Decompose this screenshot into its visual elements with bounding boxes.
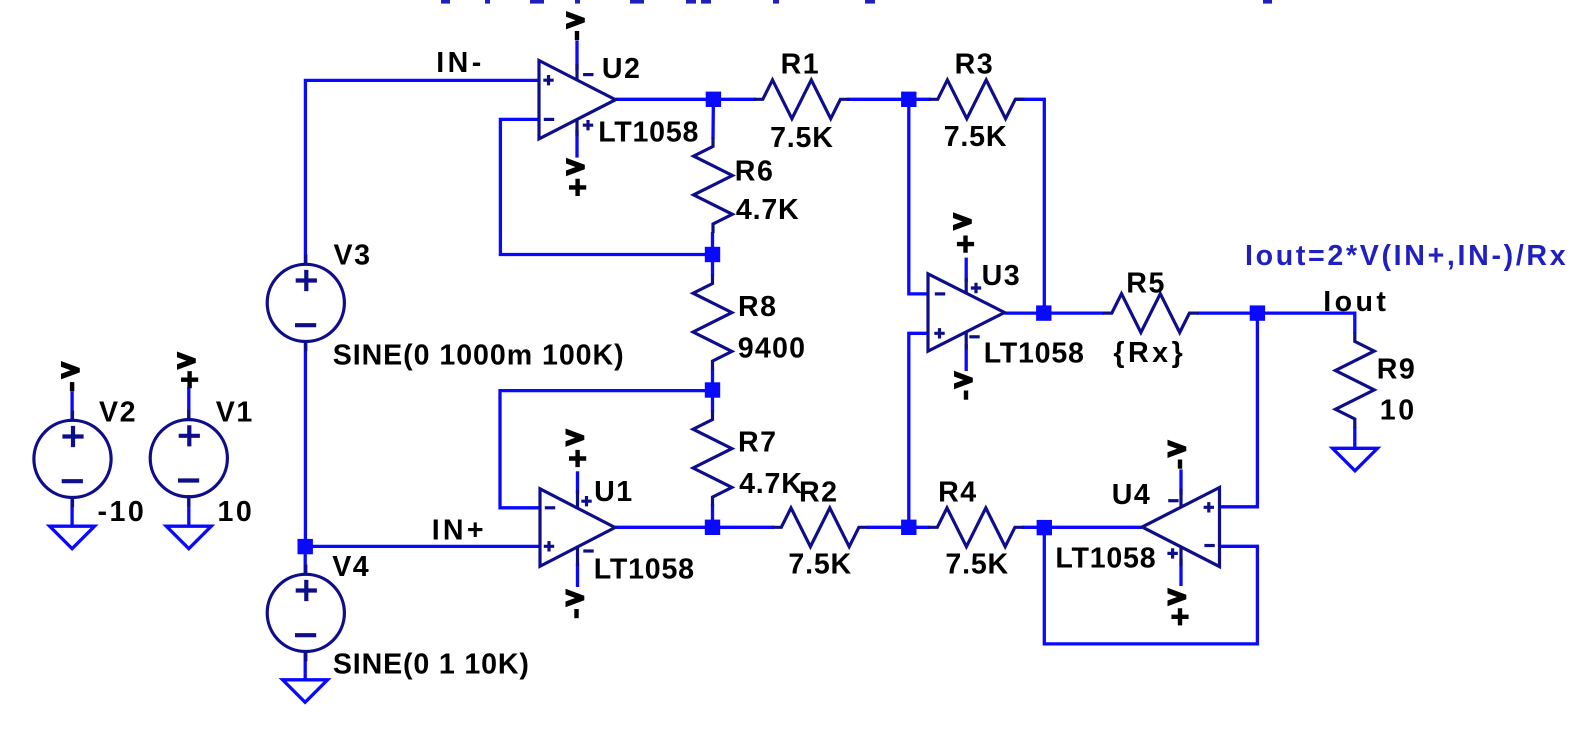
svg-text:R6: R6 (735, 155, 775, 187)
svg-text:Iout: Iout (1323, 286, 1389, 318)
svg-text:7.5K: 7.5K (945, 549, 1009, 581)
svg-text:10: 10 (218, 496, 255, 528)
svg-text:V2: V2 (99, 397, 137, 429)
svg-text:LT1058: LT1058 (598, 117, 699, 149)
svg-text:R2: R2 (799, 476, 839, 508)
svg-text:R4: R4 (938, 476, 978, 508)
svg-text:U1: U1 (594, 476, 634, 508)
svg-text:LT1058: LT1058 (984, 338, 1085, 370)
svg-text:7.5K: 7.5K (770, 122, 834, 154)
svg-text:10: 10 (1380, 395, 1417, 427)
svg-text:R9: R9 (1377, 353, 1417, 385)
svg-text:LT1058: LT1058 (1055, 543, 1156, 575)
svg-text:U2: U2 (602, 53, 642, 85)
svg-text:R8: R8 (738, 291, 778, 323)
svg-text:V4: V4 (332, 551, 370, 583)
svg-text:9400: 9400 (738, 333, 806, 365)
svg-text:U3: U3 (982, 260, 1022, 292)
svg-text:4.7K: 4.7K (736, 194, 800, 226)
svg-text:7.5K: 7.5K (944, 121, 1008, 153)
svg-text:V1: V1 (216, 397, 254, 429)
svg-text:V3: V3 (334, 239, 372, 271)
svg-text:R3: R3 (955, 49, 995, 81)
svg-text:{Rx}: {Rx} (1113, 337, 1186, 369)
svg-text:7.5K: 7.5K (788, 549, 852, 581)
svg-text:Iout=2*V(IN+,IN-)/Rx: Iout=2*V(IN+,IN-)/Rx (1245, 240, 1568, 272)
svg-text:4.7K: 4.7K (739, 468, 803, 500)
svg-text:LT1058: LT1058 (594, 553, 695, 585)
svg-text:-10: -10 (98, 496, 147, 528)
svg-text:IN-: IN- (436, 47, 485, 79)
svg-text:IN+: IN+ (432, 515, 487, 547)
svg-text:U4: U4 (1112, 479, 1152, 511)
svg-text:R5: R5 (1126, 268, 1166, 300)
svg-text:R7: R7 (738, 426, 778, 458)
svg-text:SINE(0 1000m 100K): SINE(0 1000m 100K) (333, 340, 625, 372)
svg-text:SINE(0 1 10K): SINE(0 1 10K) (333, 649, 530, 681)
svg-text:R1: R1 (781, 49, 821, 81)
